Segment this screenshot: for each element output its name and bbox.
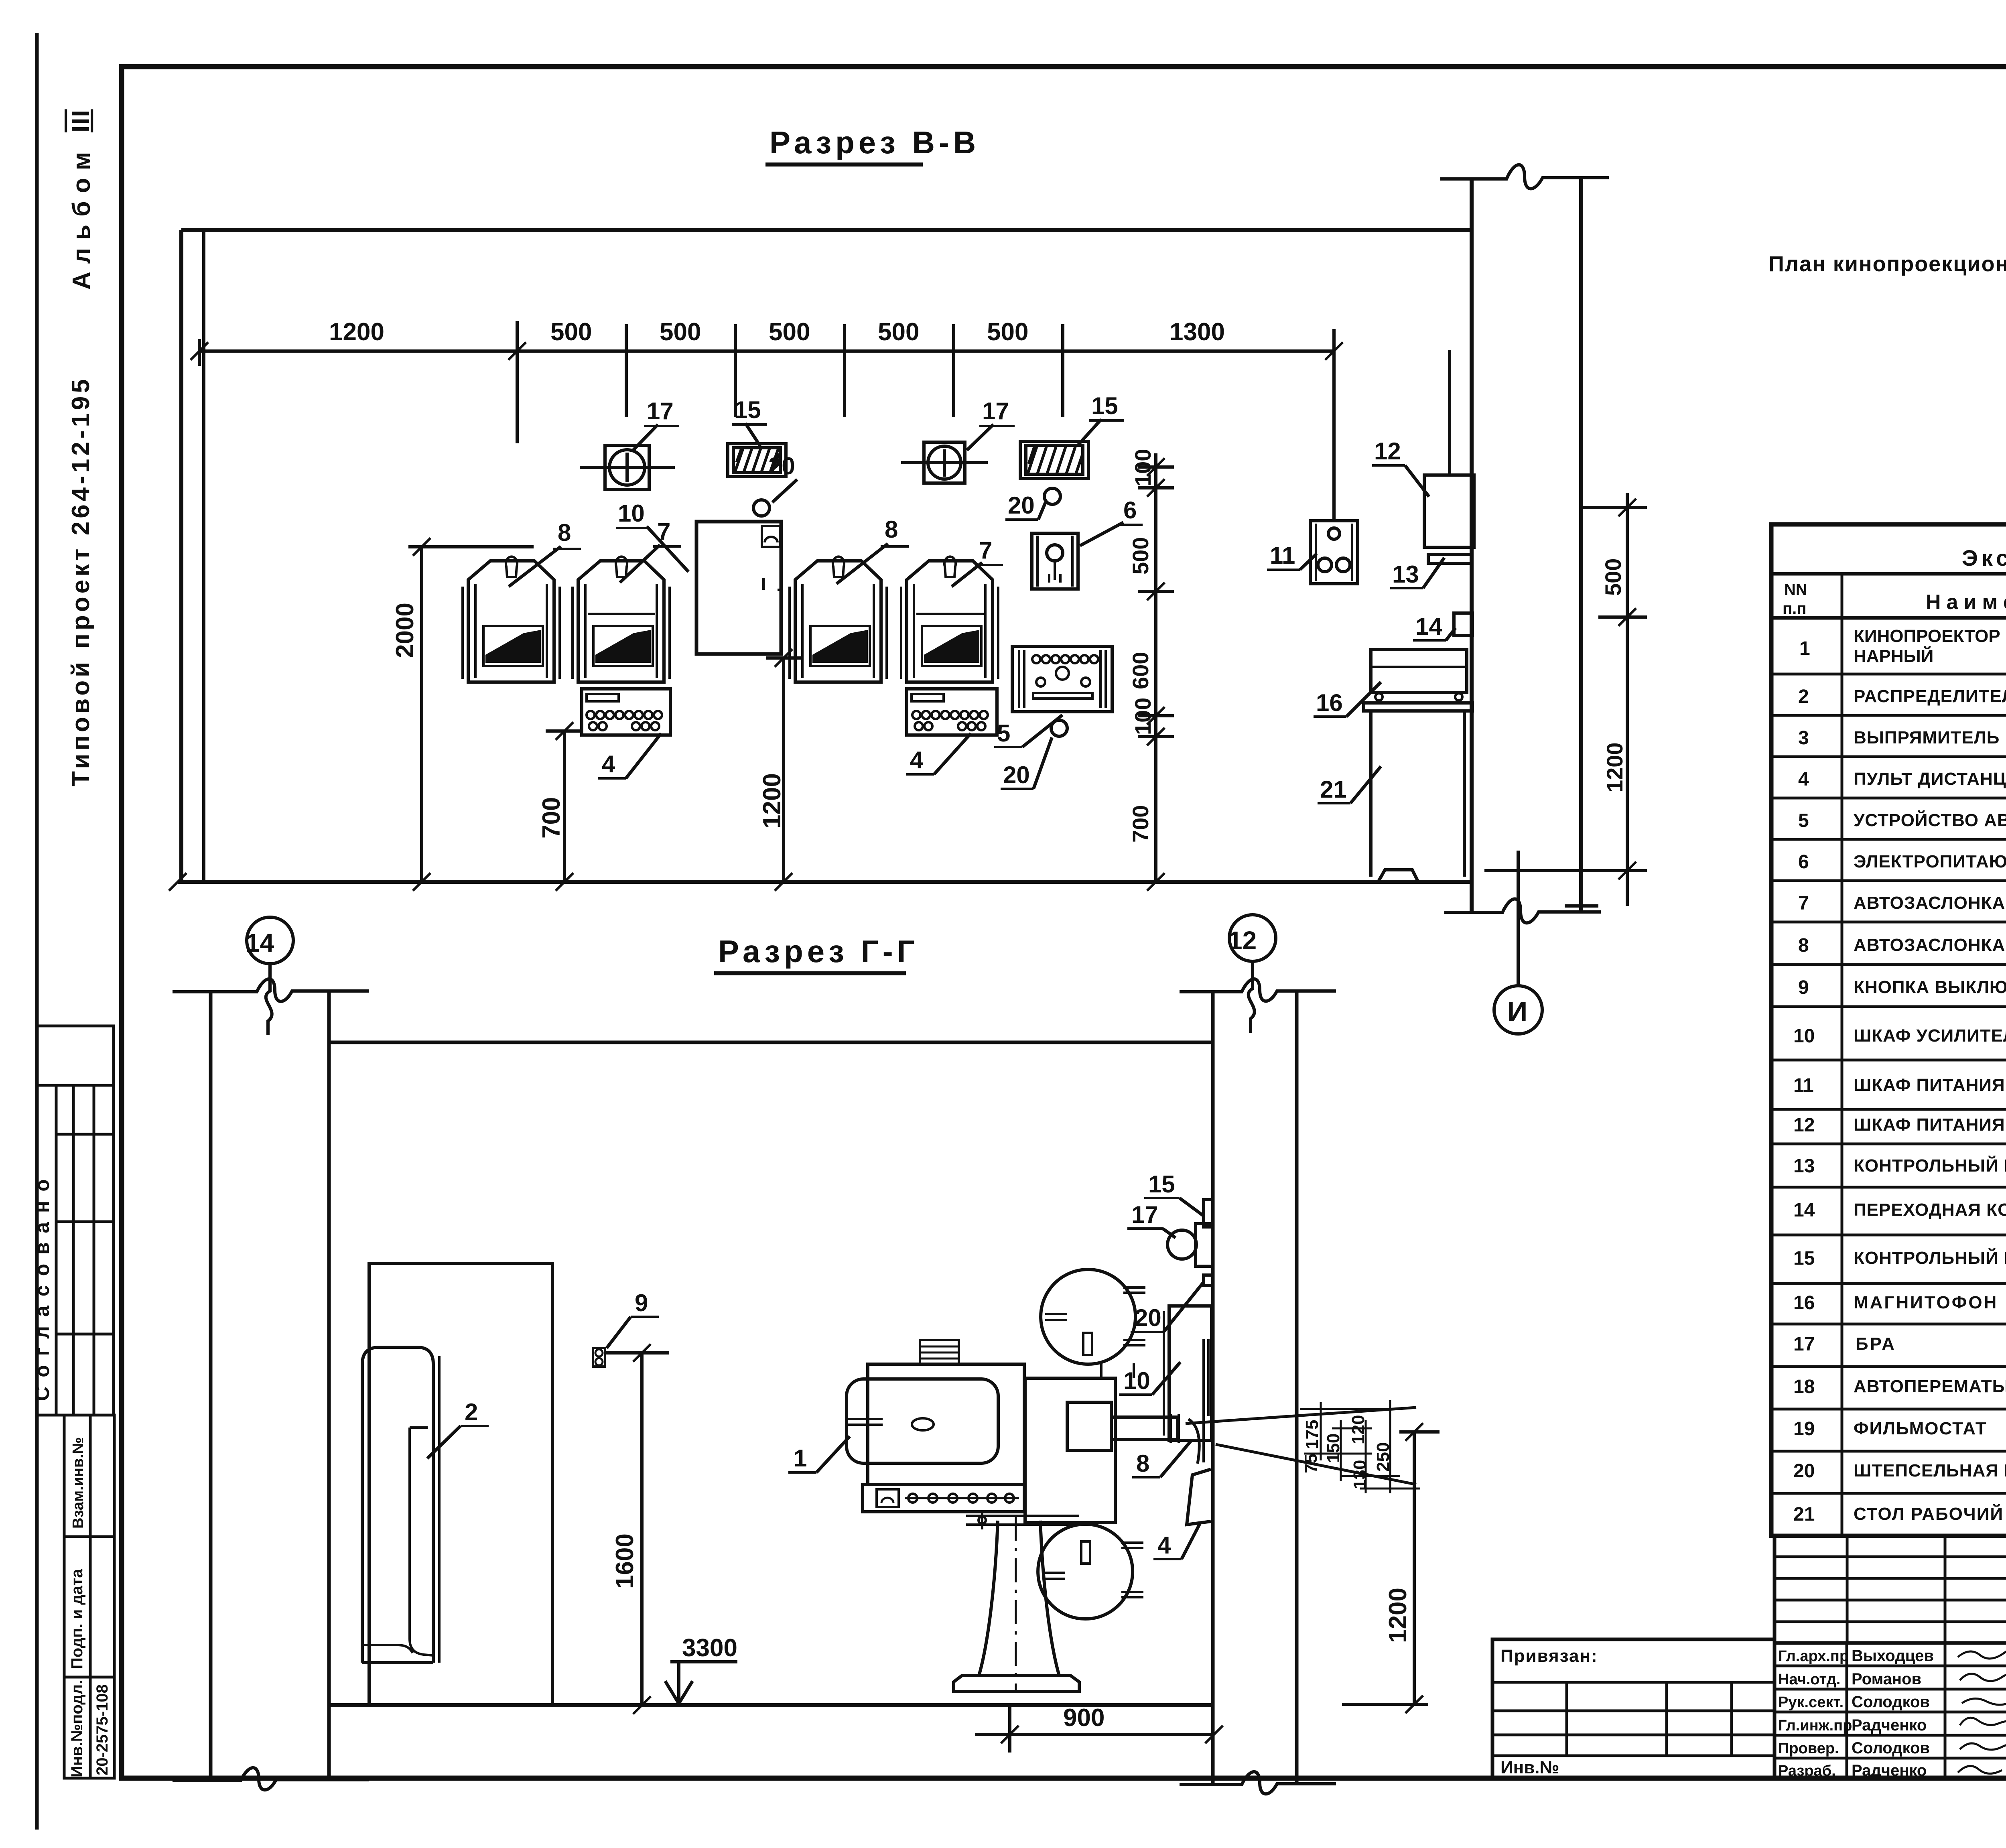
- svg-text:Экспликация оборудования: Экспликация оборудования: [1962, 545, 2006, 571]
- svg-text:4: 4: [1798, 769, 1809, 790]
- floor line: [329, 1703, 1213, 1707]
- svg-text:1200: 1200: [1602, 742, 1627, 792]
- svg-text:10: 10: [1793, 1026, 1815, 1047]
- svg-text:ШКАФ УСИЛИТЕЛЯ: ШКАФ УСИЛИТЕЛЯ: [1854, 1026, 2006, 1046]
- power device 6: [1032, 533, 1078, 589]
- svg-text:14: 14: [246, 928, 274, 957]
- dim 1600 vertical: [606, 1344, 669, 1714]
- SECTION-GG: [173, 915, 1440, 1794]
- svg-text:1: 1: [794, 1445, 807, 1472]
- dim 1200 right vertical: [1342, 1423, 1440, 1713]
- revision grid columns: [1846, 1536, 1849, 1643]
- equipment table outer border: [1771, 524, 2006, 1536]
- left wall column: [209, 992, 213, 1781]
- svg-text:АВТОПЕРЕМАТЫВАТЕЛЬ: АВТОПЕРЕМАТЫВАТЕЛЬ: [1854, 1377, 2006, 1396]
- svg-text:Инв.№: Инв.№: [1500, 1758, 1559, 1777]
- svg-text:Провер.: Провер.: [1778, 1740, 1839, 1757]
- wall lamp 17 no.2: [901, 442, 988, 483]
- wall speaker 15 edge: [1204, 1200, 1213, 1227]
- svg-text:1600: 1600: [611, 1533, 639, 1589]
- ceiling line: [329, 1041, 1213, 1044]
- lamphouse of projector: [847, 1379, 998, 1463]
- svg-text:5: 5: [997, 720, 1010, 747]
- svg-text:1200: 1200: [758, 773, 786, 829]
- svg-text:175: 175: [1302, 1420, 1322, 1449]
- elevation mark 3300: [665, 1634, 737, 1704]
- row 4: [1771, 797, 2006, 800]
- dim 700 left vertical: [563, 731, 566, 882]
- svg-text:Разраб.: Разраб.: [1778, 1763, 1836, 1779]
- svg-text:13: 13: [1793, 1156, 1815, 1177]
- svg-text:4: 4: [602, 751, 615, 778]
- svg-text:КНОПКА ВЫКЛЮЧЕНИЯ АВТОЗАСЛОНО: КНОПКА ВЫКЛЮЧЕНИЯ АВТОЗАСЛОНОК: [1854, 977, 2006, 997]
- amplifier cabinet 10: [696, 522, 781, 654]
- svg-text:12: 12: [1374, 438, 1401, 465]
- svg-text:БРА: БРА: [1856, 1334, 1896, 1354]
- rewind booth partition: [369, 1263, 552, 1705]
- projector body casing: [868, 1364, 1024, 1484]
- svg-text:17: 17: [1793, 1334, 1815, 1355]
- stamp inner columns: [55, 1085, 58, 1415]
- svg-text:500: 500: [987, 318, 1028, 346]
- row 10: [1771, 1059, 2006, 1062]
- grid bubble И: [1494, 986, 1542, 1034]
- svg-text:7: 7: [1798, 893, 1809, 914]
- room left wall (double line): [179, 230, 183, 882]
- title block main verticals: [1773, 1536, 1777, 1778]
- svg-text:1200: 1200: [329, 318, 384, 346]
- svg-text:15: 15: [1091, 392, 1118, 419]
- svg-text:ЭЛЕКТРОПИТАЮЩЕЕ УСТРОЙСТВО: ЭЛЕКТРОПИТАЮЩЕЕ УСТРОЙСТВО: [1854, 851, 2006, 871]
- socket 20 in GG: [1204, 1275, 1213, 1285]
- svg-text:15: 15: [1148, 1171, 1175, 1198]
- outer sheet left edge line: [35, 33, 39, 1830]
- left wall bottom break: [173, 1768, 369, 1790]
- svg-text:8: 8: [885, 516, 898, 543]
- svg-text:700: 700: [538, 797, 565, 839]
- projector mount bracket: [966, 1512, 1079, 1529]
- svg-text:4: 4: [910, 747, 924, 774]
- svg-text:16: 16: [1316, 689, 1343, 716]
- Взам.инв.№ cell: [64, 1415, 90, 1537]
- svg-text:Гл.арх.пр: Гл.арх.пр: [1778, 1648, 1849, 1665]
- svg-text:ШТЕПСЕЛЬНАЯ РОЗЕТКА: ШТЕПСЕЛЬНАЯ РОЗЕТКА: [1854, 1461, 2006, 1480]
- svg-text:11: 11: [1793, 1075, 1814, 1096]
- TITLE-BLOCK: [1492, 1536, 2006, 1817]
- svg-text:Согласовано: Согласовано: [31, 1170, 53, 1401]
- svg-text:16: 16: [1793, 1292, 1815, 1314]
- svg-text:План кинопроекционной и перемо: План кинопроекционной и перемоточной см.…: [1768, 252, 2006, 276]
- pushbutton 9: [593, 1348, 605, 1367]
- grid bubble 14: [247, 917, 293, 964]
- grid bubble 12: [1229, 915, 1276, 961]
- svg-text:Радченко: Радченко: [1852, 1716, 1927, 1734]
- svg-text:14: 14: [1415, 613, 1442, 640]
- approval stamp box (top empty cell): [37, 1026, 114, 1085]
- svg-text:19: 19: [1793, 1418, 1815, 1440]
- amplifier cabinet 10 in GG: [1164, 1306, 1212, 1440]
- row 20: [1771, 1492, 2006, 1495]
- column top break: [1440, 165, 1609, 189]
- projector chimney: [920, 1340, 959, 1364]
- svg-text:20: 20: [768, 453, 795, 479]
- svg-text:9: 9: [635, 1290, 648, 1316]
- floor diagonal ticks: [169, 873, 187, 891]
- row 2: [1771, 714, 2006, 717]
- svg-text:12: 12: [1793, 1115, 1815, 1136]
- dim 900: [975, 1704, 1223, 1753]
- right dim chain 500/1200: [1484, 493, 1647, 906]
- projector head block: [1025, 1378, 1115, 1523]
- lens mount: [1067, 1402, 1111, 1450]
- room top wall: [181, 228, 1472, 232]
- svg-text:120: 120: [1348, 1415, 1368, 1444]
- svg-text:Солодков: Солодков: [1852, 1693, 1930, 1711]
- Инв.№ подл. cell: [64, 1677, 90, 1778]
- svg-text:15: 15: [1793, 1248, 1815, 1269]
- svg-text:500: 500: [550, 318, 592, 346]
- svg-text:Солодков: Солодков: [1852, 1739, 1930, 1757]
- svg-text:17: 17: [647, 398, 674, 424]
- svg-text:2000: 2000: [391, 603, 419, 658]
- svg-text:20: 20: [1135, 1304, 1161, 1331]
- svg-text:СТОЛ РАБОЧИЙ: СТОЛ РАБОЧИЙ: [1854, 1503, 2004, 1524]
- svg-text:КОНТРОЛЬНЫЙ ГРОМКОГОВОРИТЕЛЬ: КОНТРОЛЬНЫЙ ГРОМКОГОВОРИТЕЛЬ: [1854, 1155, 2006, 1176]
- svg-text:Взам.инв.№: Взам.инв.№: [70, 1437, 87, 1529]
- junction box 14: [1454, 613, 1472, 636]
- top dimension line: [199, 349, 1334, 353]
- svg-text:20: 20: [1793, 1460, 1815, 1482]
- svg-text:21: 21: [1793, 1504, 1815, 1525]
- svg-text:75: 75: [1301, 1454, 1321, 1473]
- svg-text:4: 4: [1157, 1532, 1171, 1559]
- svg-text:500: 500: [1128, 537, 1153, 575]
- svg-text:3: 3: [1798, 727, 1809, 749]
- svg-text:Подп. и дата: Подп. и дата: [68, 1569, 86, 1669]
- bra lamp 17 in GG: [1167, 1224, 1212, 1266]
- svg-text:20: 20: [1003, 762, 1030, 788]
- wall lamp 17 no.1: [580, 445, 675, 489]
- mid dim chain 100-500-600-100-700: [1128, 449, 1174, 882]
- header row: [1771, 616, 2006, 620]
- row 16: [1771, 1323, 2006, 1326]
- right wall column: [1470, 178, 1474, 912]
- svg-text:Инв.№подл.: Инв.№подл.: [68, 1680, 86, 1777]
- svg-text:NN: NN: [1784, 581, 1807, 599]
- socket 20 no.3: [1051, 720, 1067, 736]
- svg-text:20-2575-108: 20-2575-108: [93, 1684, 111, 1775]
- svg-text:Разрез Г-Г: Разрез Г-Г: [718, 934, 919, 969]
- speaker 15 no.1: [728, 444, 786, 477]
- row 11: [1771, 1108, 2006, 1111]
- room floor: [178, 880, 1472, 884]
- svg-text:1: 1: [1799, 638, 1810, 659]
- tape recorder 16: [1371, 650, 1467, 701]
- svg-text:ШКАФ ПИТАНИЯ ЗВУКОЧИТАЮЩЕЙ ЛА: ШКАФ ПИТАНИЯ ЗВУКОЧИТАЮЩЕЙ ЛАМПЫ: [1854, 1074, 2006, 1095]
- column axis line to grid bubble: [1517, 851, 1520, 986]
- svg-text:500: 500: [878, 318, 919, 346]
- svg-text:НАРНЫЙ: НАРНЫЙ: [1854, 646, 1933, 666]
- svg-text:20: 20: [1008, 492, 1035, 519]
- svg-text:11: 11: [1270, 542, 1295, 569]
- row 5: [1771, 838, 2006, 841]
- svg-text:ШКАФ ПИТАНИЯ И КОНТРОЛЯ: ШКАФ ПИТАНИЯ И КОНТРОЛЯ: [1854, 1115, 2006, 1135]
- row 3: [1771, 755, 2006, 758]
- top film magazine: [1041, 1269, 1145, 1378]
- svg-text:Нач.отд.: Нач.отд.: [1778, 1671, 1840, 1688]
- svg-text:РАСПРЕДЕЛИТЕЛЬНОЕ УСТРОЙСТВО: РАСПРЕДЕЛИТЕЛЬНОЕ УСТРОЙСТВО: [1854, 686, 2006, 706]
- svg-text:Романов: Романов: [1852, 1670, 1921, 1688]
- svg-text:6: 6: [1798, 851, 1809, 873]
- svg-text:ВЫПРЯМИТЕЛЬ: ВЫПРЯМИТЕЛЬ: [1854, 728, 2000, 747]
- svg-text:Привязан:: Привязан:: [1500, 1646, 1598, 1666]
- svg-text:130: 130: [1350, 1460, 1370, 1489]
- svg-text:АВТОЗАСЛОНКА ПРОЕКЦИОННОГО ОК: АВТОЗАСЛОНКА ПРОЕКЦИОННОГО ОКНА: [1854, 935, 2006, 955]
- column bottom break: [1444, 899, 1601, 923]
- power cabinet 12: [1424, 475, 1474, 547]
- row 17: [1771, 1365, 2006, 1368]
- remote panel 4 no.1: [582, 689, 670, 735]
- speaker 15 no.2: [1020, 441, 1088, 479]
- small dim cluster 75/175/150/130/120/250: [1300, 1400, 1420, 1493]
- svg-text:Разрез В-В: Разрез В-В: [770, 125, 980, 160]
- NOTE-TABLE: [1768, 210, 2006, 1536]
- work table 21: [1364, 703, 1472, 882]
- revision grid rows: [1775, 1556, 2006, 1558]
- svg-text:Радченко: Радченко: [1852, 1762, 1927, 1779]
- Привязан box: [1492, 1639, 1775, 1778]
- left wall top break: [173, 979, 369, 1001]
- bubble 14 stem with break: [266, 964, 272, 1035]
- svg-text:100: 100: [1130, 449, 1155, 486]
- svg-text:700: 700: [1128, 805, 1153, 843]
- staff label column: [1846, 1643, 1848, 1778]
- control speaker 13: [1428, 554, 1472, 563]
- svg-text:АВТОЗАСЛОНКА СМОТРОВОГО ОКНА: АВТОЗАСЛОНКА СМОТРОВОГО ОКНА: [1854, 893, 2006, 913]
- svg-text:10: 10: [618, 500, 645, 527]
- svg-text:8: 8: [1798, 935, 1809, 956]
- svg-text:600: 600: [1128, 652, 1153, 689]
- dim ticks: [198, 339, 201, 366]
- svg-text:Рук.сект.: Рук.сект.: [1778, 1694, 1844, 1711]
- svg-text:1300: 1300: [1169, 318, 1225, 346]
- dim 1200 middle vertical: [782, 658, 785, 882]
- projector control base strip: [863, 1484, 1024, 1512]
- svg-text:17: 17: [982, 398, 1009, 424]
- row 7: [1771, 921, 2006, 924]
- LEFT-MARGIN: [31, 109, 114, 1778]
- remote panel 4 no.2: [907, 689, 997, 735]
- stamp inner rows: [56, 1133, 114, 1136]
- shutter 8 no.2: [790, 556, 887, 682]
- svg-text:2: 2: [465, 1399, 478, 1426]
- staff signatures: [1958, 1649, 2006, 1659]
- projection beam lines: [1186, 1407, 1416, 1424]
- svg-text:III: III: [67, 109, 95, 132]
- svg-text:500: 500: [769, 318, 810, 346]
- svg-text:Наименование: Наименование: [1926, 591, 2006, 614]
- power cabinet 11: [1310, 521, 1358, 584]
- svg-text:п.п: п.п: [1783, 600, 1806, 617]
- svg-text:3300: 3300: [682, 1634, 737, 1662]
- shutter 7 no.1: [573, 556, 670, 682]
- svg-text:И: И: [1507, 996, 1527, 1027]
- svg-text:2: 2: [1798, 686, 1809, 707]
- row 19: [1771, 1450, 2006, 1453]
- hanger line to box 12: [1448, 350, 1451, 475]
- svg-text:10: 10: [1123, 1367, 1150, 1394]
- svg-text:Гл.инж.пр: Гл.инж.пр: [1778, 1717, 1852, 1734]
- table column lines: [1841, 574, 1844, 1536]
- dim 2000 vertical: [420, 547, 423, 882]
- svg-text:ФИЛЬМОСТАТ: ФИЛЬМОСТАТ: [1854, 1419, 1987, 1438]
- row 15: [1771, 1282, 2006, 1285]
- socket 20 no.1: [753, 500, 770, 516]
- approval stamp box (Согласовано band): [37, 1085, 114, 1415]
- svg-text:900: 900: [1063, 1704, 1105, 1732]
- svg-text:250: 250: [1373, 1442, 1393, 1472]
- Подп. и дата cell: [64, 1537, 90, 1677]
- svg-text:6: 6: [1123, 497, 1137, 524]
- right wall column: [1211, 992, 1215, 1785]
- bottom film magazine: [1038, 1524, 1143, 1619]
- shutter 8 no.1: [463, 556, 560, 682]
- remote panel 4 on wall: [1187, 1469, 1211, 1525]
- row 8: [1771, 963, 2006, 966]
- svg-text:8: 8: [558, 519, 571, 546]
- svg-text:100: 100: [1130, 698, 1155, 735]
- svg-text:500: 500: [1600, 558, 1626, 596]
- lens barrel: [1111, 1414, 1179, 1443]
- hanger line to box 11 at 1300 tick: [1332, 329, 1336, 521]
- svg-text:18: 18: [1793, 1376, 1815, 1397]
- row 14: [1771, 1234, 2006, 1237]
- svg-text:ПЕРЕХОДНАЯ КОРОБКА: ПЕРЕХОДНАЯ КОРОБКА: [1854, 1200, 2006, 1220]
- svg-text:150: 150: [1324, 1434, 1343, 1463]
- svg-text:7: 7: [979, 537, 992, 564]
- svg-text:9: 9: [1798, 977, 1809, 998]
- svg-text:500: 500: [660, 318, 701, 346]
- bubble 12 stem with break: [1249, 961, 1255, 1033]
- svg-text:УСТРОЙСТВО АВТОМАТИЗАЦИИ КИНОП: УСТРОЙСТВО АВТОМАТИЗАЦИИ КИНОПОКАЗА: [1854, 810, 2006, 830]
- SECTION-BB: [169, 125, 1647, 1034]
- shutter plate on wall: [1188, 1339, 1208, 1464]
- row 18: [1771, 1408, 2006, 1411]
- title block top edge: [1775, 1534, 2006, 1538]
- svg-text:Типовой проект 264-12-195: Типовой проект 264-12-195: [67, 376, 95, 786]
- svg-text:1200: 1200: [1384, 1588, 1412, 1643]
- svg-text:12: 12: [1228, 926, 1257, 955]
- right wall bottom break: [1180, 1772, 1336, 1794]
- svg-text:8: 8: [1136, 1450, 1149, 1477]
- svg-text:13: 13: [1392, 561, 1419, 588]
- row 6: [1771, 879, 2006, 882]
- svg-text:21: 21: [1320, 776, 1347, 803]
- svg-text:17: 17: [1131, 1201, 1158, 1228]
- socket 20 no.2: [1044, 488, 1060, 504]
- projector pedestal column: [979, 1521, 1059, 1675]
- shutter 7 no.2: [901, 556, 998, 682]
- row 12: [1771, 1143, 2006, 1145]
- svg-text:Выходцев: Выходцев: [1852, 1647, 1934, 1665]
- distribution cabinet 2: [362, 1347, 439, 1663]
- svg-text:14: 14: [1793, 1200, 1815, 1221]
- row 13: [1771, 1186, 2006, 1189]
- svg-text:ПУЛЬТ ДИСТАНЦИОННОГО УПРАВЛЕН: ПУЛЬТ ДИСТАНЦИОННОГО УПРАВЛЕНИЯ: [1854, 769, 2006, 789]
- row 1: [1771, 673, 2006, 676]
- svg-text:КОНТРОЛЬНЫЙ ГРОМКОГОВОРИТЕЛЬ: КОНТРОЛЬНЫЙ ГРОМКОГОВОРИТЕЛЬ: [1854, 1247, 2006, 1268]
- automation device 5: [1012, 646, 1112, 712]
- svg-text:МАГНИТОФОН: МАГНИТОФОН: [1854, 1293, 1998, 1312]
- svg-text:5: 5: [1798, 810, 1809, 831]
- right wall top break: [1180, 979, 1336, 1001]
- svg-text:15: 15: [734, 396, 761, 423]
- film projector 1: pedestal base: [954, 1675, 1079, 1692]
- staff area rows: [1775, 1641, 2006, 1645]
- svg-text:КИНОПРОЕКТОР ШИРОКОЭКРАННЫЙ СТ: КИНОПРОЕКТОР ШИРОКОЭКРАННЫЙ СТАЦИО-: [1854, 625, 2006, 646]
- pedestal centerline: [1015, 1517, 1017, 1691]
- row 9: [1771, 1005, 2006, 1008]
- svg-text:Альбом: Альбом: [68, 144, 95, 290]
